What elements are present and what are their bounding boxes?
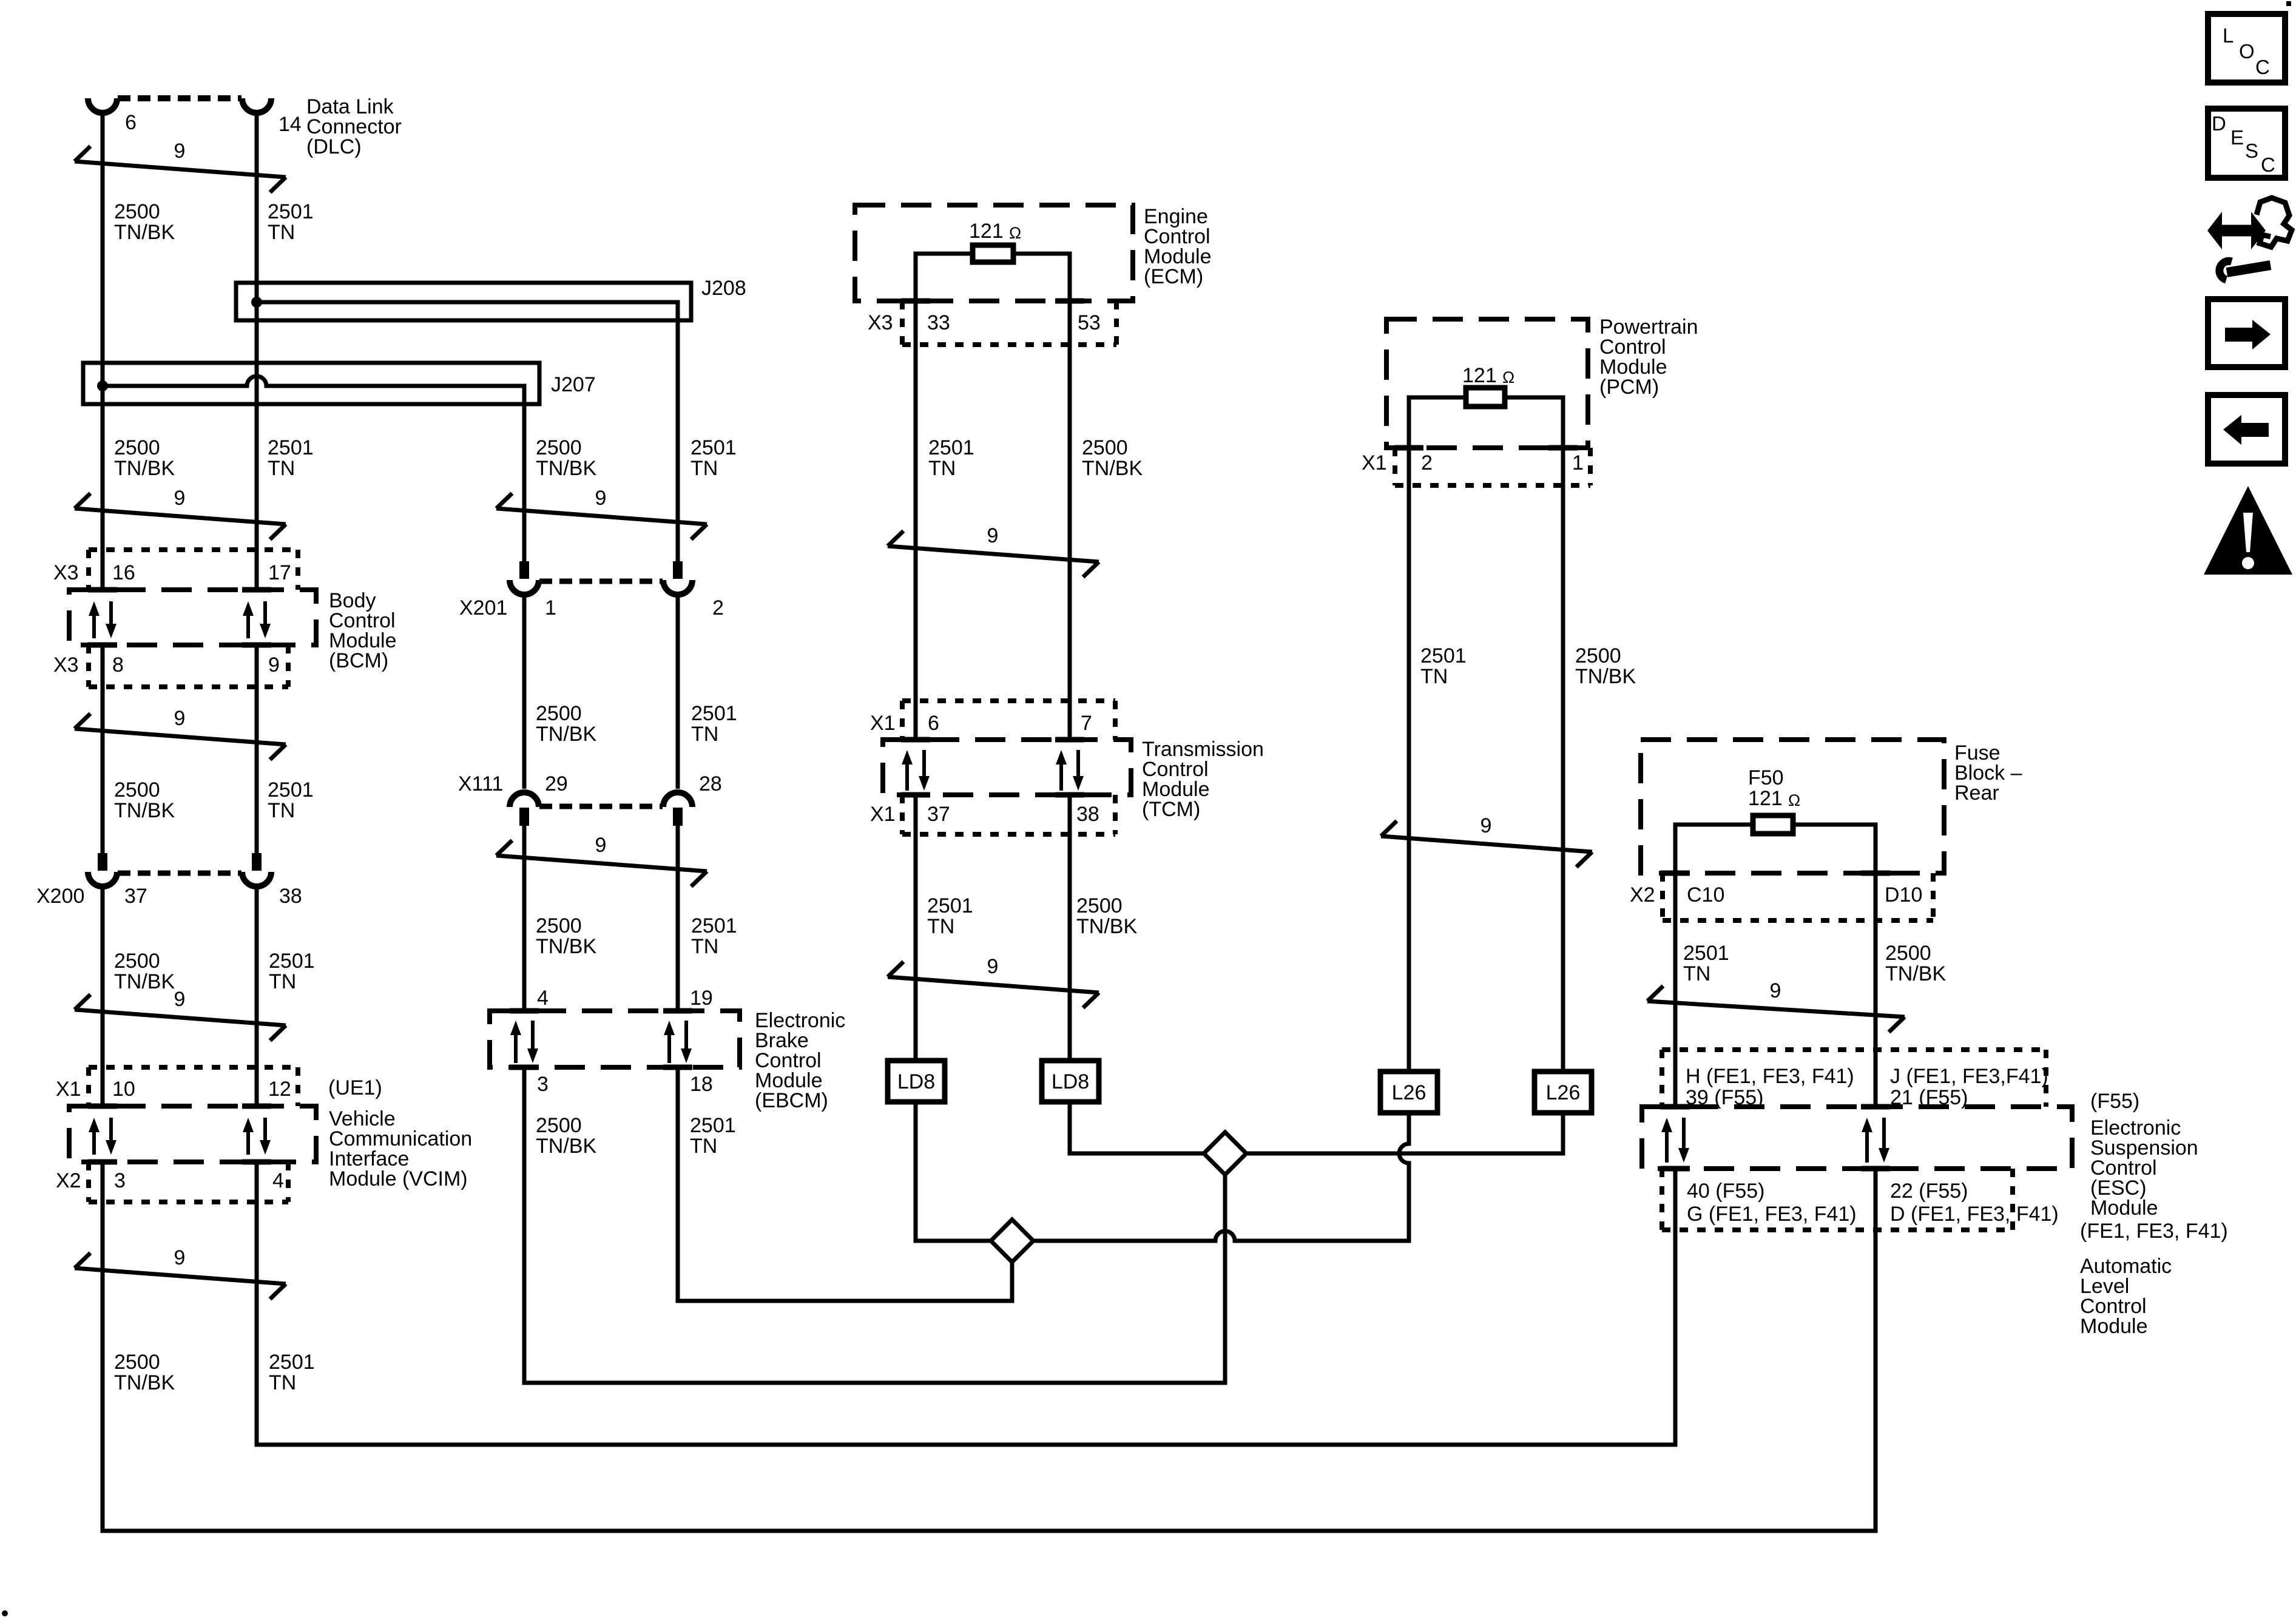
svg-text:121: 121 [969,220,1004,243]
svg-text:2501: 2501 [691,702,737,725]
svg-text:3: 3 [537,1073,549,1096]
svg-text:28: 28 [699,772,722,795]
svg-text:C: C [2261,154,2275,176]
svg-text:9: 9 [595,487,607,510]
svg-text:2500: 2500 [536,914,582,937]
svg-text:TN: TN [269,970,296,993]
svg-text:(EBCM): (EBCM) [755,1089,828,1112]
svg-text:X1: X1 [870,803,896,826]
svg-text:12: 12 [268,1078,291,1101]
svg-text:9: 9 [987,524,999,547]
svg-text:TN/BK: TN/BK [114,457,175,480]
svg-text:14: 14 [279,113,302,136]
svg-text:(FE1, FE3, F41): (FE1, FE3, F41) [2080,1220,2228,1243]
svg-text:X200: X200 [36,885,84,908]
svg-text:TN: TN [268,457,295,480]
svg-text:TN/BK: TN/BK [1885,962,1946,985]
svg-text:(PCM): (PCM) [1599,376,1659,399]
svg-text:L26: L26 [1392,1081,1427,1104]
svg-text:9: 9 [268,653,280,677]
svg-text:2501: 2501 [269,950,315,973]
svg-text:TN/BK: TN/BK [536,1135,596,1158]
svg-text:X111: X111 [458,772,503,795]
svg-text:2: 2 [1421,451,1433,474]
svg-text:2500: 2500 [536,436,582,459]
svg-text:121: 121 [1462,364,1497,387]
svg-text:2501: 2501 [691,914,737,937]
svg-text:J207: J207 [551,373,596,396]
svg-text:X3: X3 [53,561,79,584]
svg-text:2501: 2501 [1683,942,1729,965]
svg-text:53: 53 [1078,311,1101,334]
svg-text:TN: TN [928,457,956,480]
svg-text:2500: 2500 [114,950,160,973]
svg-text:O: O [2239,40,2255,62]
svg-text:2500: 2500 [114,1351,160,1374]
svg-text:X3: X3 [868,311,893,334]
svg-text:X2: X2 [1630,883,1655,906]
svg-text:9: 9 [1770,979,1781,1002]
svg-text:9: 9 [1481,814,1492,837]
svg-text:121: 121 [1748,787,1783,810]
svg-text:TN/BK: TN/BK [1575,665,1636,688]
svg-text:Ω: Ω [1502,368,1514,387]
svg-text:2501: 2501 [690,1114,736,1137]
svg-text:TN: TN [1683,962,1710,985]
svg-text:G (FE1, FE3, F41): G (FE1, FE3, F41) [1687,1203,1857,1226]
svg-text:33: 33 [927,311,950,334]
svg-text:37: 37 [927,803,950,826]
svg-text:Ω: Ω [1009,224,1021,242]
svg-text:2500: 2500 [114,778,160,802]
svg-text:37: 37 [124,885,147,908]
svg-text:1: 1 [1572,451,1584,474]
svg-text:10: 10 [112,1078,135,1101]
svg-text:2501: 2501 [269,1351,315,1374]
svg-text:TN/BK: TN/BK [114,970,175,993]
svg-text:2501: 2501 [928,436,974,459]
svg-text:29: 29 [545,772,568,795]
svg-text:6: 6 [928,712,939,735]
svg-text:9: 9 [174,988,186,1011]
svg-text:2501: 2501 [268,778,314,802]
svg-text:(DLC): (DLC) [306,135,362,158]
svg-text:18: 18 [690,1073,713,1096]
svg-text:2500: 2500 [114,200,160,223]
svg-text:TN: TN [690,457,718,480]
svg-text:1: 1 [545,596,556,619]
svg-text:9: 9 [987,955,999,978]
svg-text:D: D [2212,112,2226,135]
svg-text:Module: Module [2090,1197,2158,1220]
svg-text:2500: 2500 [114,436,160,459]
svg-text:(F55): (F55) [2090,1090,2139,1113]
svg-text:9: 9 [595,834,607,857]
svg-text:2501: 2501 [927,894,973,917]
svg-text:4: 4 [537,987,549,1010]
svg-text:J (FE1, FE3,F41): J (FE1, FE3,F41) [1890,1065,2048,1088]
svg-text:TN/BK: TN/BK [1076,915,1137,938]
svg-text:X201: X201 [459,596,507,619]
svg-text:TN: TN [269,1371,296,1394]
svg-text:TN: TN [690,1135,717,1158]
svg-text:X3: X3 [53,653,79,677]
svg-text:LD8: LD8 [1052,1070,1089,1093]
svg-text:2501: 2501 [1420,644,1467,667]
svg-text:TN/BK: TN/BK [1082,457,1143,480]
svg-text:L: L [2223,24,2234,47]
svg-text:C: C [2255,56,2270,78]
svg-text:2500: 2500 [1082,436,1128,459]
svg-text:TN/BK: TN/BK [114,799,175,822]
svg-text:TN: TN [927,915,954,938]
svg-text:X1: X1 [1362,451,1387,474]
svg-text:8: 8 [112,653,124,677]
svg-text:Module (VCIM): Module (VCIM) [329,1167,468,1190]
svg-text:38: 38 [1076,803,1099,826]
svg-text:40 (F55): 40 (F55) [1687,1180,1765,1203]
svg-text:3: 3 [114,1169,126,1192]
svg-text:TN: TN [268,221,295,244]
svg-text:Module: Module [2080,1315,2148,1338]
svg-text:H (FE1, FE3, F41): H (FE1, FE3, F41) [1686,1065,1854,1088]
svg-text:Ω: Ω [1788,791,1800,809]
svg-text:2501: 2501 [690,436,737,459]
svg-text:S: S [2245,140,2258,162]
svg-text:2500: 2500 [1076,894,1123,917]
svg-text:9: 9 [174,1246,186,1269]
svg-text:C10: C10 [1687,883,1724,906]
svg-text:TN/BK: TN/BK [536,935,596,958]
svg-text:16: 16 [112,561,135,584]
svg-text:(ECM): (ECM) [1144,265,1203,288]
svg-text:X2: X2 [56,1169,81,1192]
svg-text:X1: X1 [870,712,896,735]
svg-text:(UE1): (UE1) [328,1076,382,1099]
svg-text:9: 9 [174,140,186,163]
svg-text:TN/BK: TN/BK [536,457,596,480]
svg-text:L26: L26 [1546,1081,1581,1104]
svg-text:(BCM): (BCM) [329,649,388,672]
svg-text:17: 17 [268,561,291,584]
svg-text:9: 9 [174,487,186,510]
svg-text:2500: 2500 [536,702,582,725]
svg-text:LD8: LD8 [897,1070,935,1093]
svg-text:TN: TN [1420,665,1448,688]
svg-text:D10: D10 [1885,883,1922,906]
svg-text:TN/BK: TN/BK [114,1371,175,1394]
svg-text:2500: 2500 [536,1114,582,1137]
svg-text:7: 7 [1081,712,1092,735]
svg-text:Rear: Rear [1954,781,1999,805]
svg-text:X1: X1 [56,1078,81,1101]
svg-text:4: 4 [272,1169,284,1192]
svg-text:TN/BK: TN/BK [536,723,596,746]
svg-text:(TCM): (TCM) [1142,798,1200,821]
svg-text:TN/BK: TN/BK [114,221,175,244]
svg-text:19: 19 [690,987,713,1010]
svg-text:TN: TN [691,935,718,958]
svg-text:TN: TN [691,723,718,746]
svg-text:E: E [2230,126,2244,149]
svg-text:2500: 2500 [1885,942,1931,965]
svg-text:TN: TN [268,799,295,822]
svg-text:J208: J208 [701,277,746,300]
svg-text:22 (F55): 22 (F55) [1890,1180,1968,1203]
svg-text:F50: F50 [1748,766,1784,789]
svg-text:9: 9 [174,707,186,730]
svg-text:2: 2 [712,596,724,619]
svg-text:D (FE1, FE3, F41): D (FE1, FE3, F41) [1890,1203,2059,1226]
svg-text:2501: 2501 [268,436,314,459]
svg-text:38: 38 [279,885,302,908]
svg-text:2500: 2500 [1575,644,1621,667]
svg-text:6: 6 [125,111,137,134]
svg-text:2501: 2501 [268,200,314,223]
